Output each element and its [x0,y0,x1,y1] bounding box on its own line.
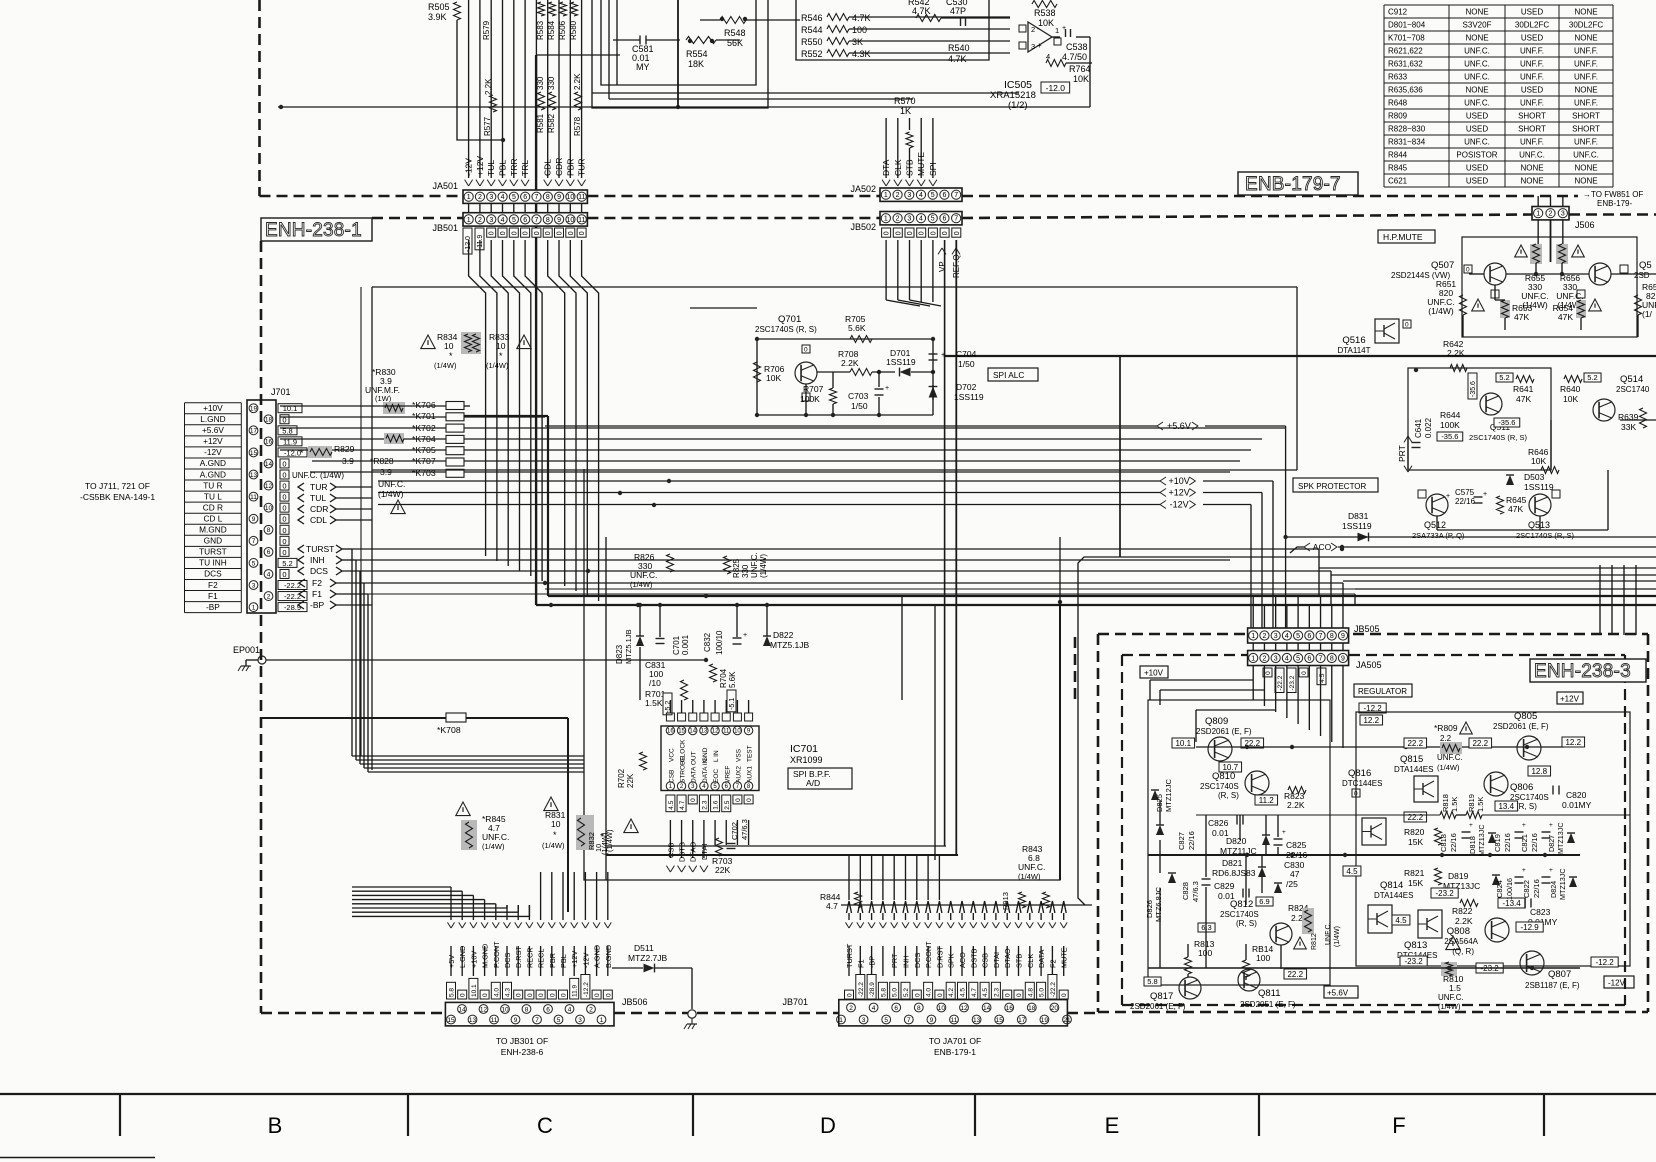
svg-text:D801~804: D801~804 [1388,20,1426,29]
ground D511 [684,1018,697,1029]
svg-text:10: 10 [567,194,575,201]
svg-text:SPK: SPK [947,953,956,968]
svg-text:0: 0 [1405,322,1409,329]
svg-text:4.3: 4.3 [505,988,512,997]
svg-text:3: 3 [1031,42,1035,51]
connector JA505 [1248,651,1382,671]
svg-text:A.GND: A.GND [200,469,226,479]
resistor R830 3.9 UNF.M.F. (1W) [365,367,405,414]
relay K702 [280,423,1285,433]
svg-text:0: 0 [919,231,926,235]
svg-text:+: + [1522,867,1526,874]
svg-text:TO JA701 OF: TO JA701 OF [929,1036,981,1046]
net bracket DCS [298,566,360,576]
resistor R819 1.5K [1466,794,1485,818]
svg-text:13.4: 13.4 [1498,802,1514,811]
svg-text:+: + [1446,493,1450,500]
boxed 22.2 a [1241,738,1264,748]
svg-text:+: + [1549,822,1553,829]
svg-text:100K: 100K [800,394,820,404]
svg-text:R546: R546 [801,13,823,23]
label SPI B.P.F. A/D [788,768,852,789]
svg-text:SHORT: SHORT [1572,124,1600,133]
svg-text:17: 17 [250,428,258,435]
bus thick pair [464,416,1656,607]
svg-text:7: 7 [954,192,958,199]
svg-text:(R, S): (R, S) [1516,802,1537,811]
svg-text:0: 0 [568,231,575,235]
svg-text:2: 2 [1031,25,1035,34]
svg-text:R579: R579 [482,20,491,40]
svg-text:F1: F1 [208,591,218,601]
wire JB701 feed rails [606,846,1092,905]
resistor R820 15K [1404,827,1442,847]
svg-text:2SC1740S: 2SC1740S [1200,782,1239,791]
boxed 12.2 b [1562,737,1585,747]
ruler letter E [1105,1113,1120,1138]
svg-text:SPI ALC: SPI ALC [993,370,1024,380]
ground EP001 [238,660,251,671]
resistor R845 4.7 UNF.C.(1/4W) [456,802,510,851]
wire JA501-JB501 links [469,203,582,212]
svg-text:0: 0 [1354,791,1358,798]
svg-text:TRR: TRR [509,159,519,176]
net label TRL [520,160,530,186]
svg-text:4: 4 [919,216,923,223]
svg-text:0: 0 [511,231,518,235]
wire vertical x935 [934,604,936,860]
resistor R580 / R578 2.2K [569,2,582,136]
svg-text:TU INH: TU INH [199,558,227,568]
svg-text:47K: 47K [1516,394,1531,404]
svg-text:UNF.F.: UNF.F. [1520,98,1544,107]
diode D701 1SS119 [886,348,933,376]
svg-text:47K: 47K [1508,504,1523,514]
resistor R823 2.2K [1284,787,1306,811]
svg-text:(1/4W): (1/4W) [486,361,509,370]
svg-text:POSISTOR: POSISTOR [1456,150,1497,159]
capacitor C828 47/6.3 [1181,879,1211,902]
svg-text:+5V: +5V [447,955,456,968]
label JB701 [782,997,808,1007]
svg-text:SHORT: SHORT [1518,124,1546,133]
svg-text:4.7: 4.7 [679,800,686,809]
connector JB701 [837,1000,1072,1026]
svg-text:9: 9 [252,516,256,523]
capacitor C822 22/16 [1522,867,1553,898]
svg-text:UNF.C.: UNF.C. [482,832,509,842]
svg-text:100/16: 100/16 [1505,878,1514,900]
svg-text:(1/4W): (1/4W) [542,841,565,850]
svg-text:2.2: 2.2 [1440,734,1452,743]
svg-text:22/16: 22/16 [1532,879,1541,898]
svg-text:R844: R844 [1388,150,1408,159]
resistor R824 2.2K [1288,903,1314,934]
svg-text:2.2K: 2.2K [1455,916,1473,926]
resistor R913 [1001,892,1050,910]
svg-text:NONE: NONE [1520,163,1543,172]
resistor R654 47K [1553,299,1602,322]
svg-text:(1/4W): (1/4W) [1018,872,1041,881]
svg-text:-28.9: -28.9 [869,982,876,997]
svg-text:(1/4W): (1/4W) [1334,926,1341,947]
svg-text:Q808: Q808 [1447,926,1470,937]
wire bus to JA502 [886,118,933,178]
resistor R583 330 R581 [536,2,545,133]
svg-text:33K: 33K [1621,422,1636,432]
svg-text:MTZ5.1JB: MTZ5.1JB [770,640,810,650]
svg-text:2SA733A (P, Q): 2SA733A (P, Q) [1412,531,1465,540]
svg-text:B: B [268,1113,283,1138]
svg-text:8: 8 [1330,656,1334,663]
svg-text:-12V: -12V [1608,979,1626,988]
svg-text:C828: C828 [1181,882,1190,900]
wire vertical x902 [901,595,903,700]
transistor Q817 2SD2061 (E, F) [1130,977,1201,1011]
svg-text:C912: C912 [1388,7,1408,16]
connector JB501 [432,213,587,233]
transistor Q516 DTA114T [1337,319,1411,355]
svg-text:6: 6 [894,1005,898,1012]
connector J701 [247,387,291,613]
diode D831 1SS119 [1342,511,1372,541]
svg-text:R540: R540 [948,43,970,53]
svg-text:0: 0 [942,231,949,235]
svg-text:C621: C621 [1388,176,1408,185]
svg-text:STB: STB [905,159,915,176]
svg-text:1: 1 [839,1017,843,1024]
svg-text:Q507: Q507 [1431,260,1454,271]
wire bus JB501 down [469,240,599,385]
svg-text:10K: 10K [1038,18,1054,28]
svg-text:SHORT: SHORT [1572,111,1600,120]
svg-text:0: 0 [545,231,552,235]
svg-text:Q5: Q5 [1639,260,1652,271]
svg-text:100: 100 [852,25,867,35]
svg-text:MTZ11JC: MTZ11JC [1220,846,1257,856]
svg-text:STB: STB [1015,954,1024,968]
svg-text:14: 14 [689,729,696,735]
svg-text:L.GND: L.GND [200,414,225,424]
svg-text:TO JB301 OF: TO JB301 OF [496,1036,548,1046]
svg-text:11.2: 11.2 [1259,796,1275,805]
svg-text:UNF.C.: UNF.C. [1464,98,1490,107]
svg-text:47/6.3: 47/6.3 [740,819,749,840]
svg-text:22.2: 22.2 [1472,739,1488,748]
resistor R708 2.2K [817,349,895,376]
svg-text:11: 11 [578,217,585,224]
svg-text:VSS: VSS [735,748,742,762]
svg-text:(1/4W): (1/4W) [482,842,505,851]
svg-text:5: 5 [557,1017,561,1024]
net label TUL [486,160,496,186]
board outline dashed ENH-238-1 left [260,241,263,1013]
svg-text:4.5: 4.5 [982,988,989,997]
label ACO [1290,542,1656,553]
svg-text:6: 6 [523,217,527,224]
svg-text:M.GND: M.GND [481,944,490,968]
svg-text:5.8: 5.8 [880,988,887,997]
svg-text:30DL2FC: 30DL2FC [1569,20,1603,29]
svg-text:1: 1 [467,194,471,201]
wire bus JB502 down [945,240,957,855]
svg-text:D511: D511 [634,943,654,953]
svg-text:7: 7 [535,194,539,201]
svg-text:0: 0 [282,537,286,546]
resistor R584 330 R582 [547,2,556,133]
svg-text:UNF.C.: UNF.C. [1018,862,1045,872]
IC701 pin values [666,795,753,812]
svg-text:(1/4W): (1/4W) [605,829,614,852]
wire JB701 feed fan [847,856,1067,920]
boxed -5.1 vertical [727,690,736,712]
svg-text:ACO: ACO [1313,542,1332,552]
svg-text:JB701: JB701 [782,997,808,1007]
svg-text:R584: R584 [547,20,556,40]
boxed -12.2 b [1591,957,1618,967]
svg-text:-23.2: -23.2 [1404,957,1423,966]
svg-text:R582: R582 [547,113,556,133]
svg-text:1.5: 1.5 [1449,983,1461,993]
svg-text:PRT: PRT [1397,445,1407,462]
node EP001 [233,645,266,666]
svg-text:22/16: 22/16 [1455,497,1476,506]
svg-text:SPK PROTECTOR: SPK PROTECTOR [1298,482,1367,491]
label +5.6V box [1324,986,1358,998]
svg-text:NONE: NONE [1574,7,1597,16]
svg-text:R578: R578 [573,116,582,136]
svg-text:8: 8 [546,217,550,224]
module label ENH-238-3 [1530,659,1646,682]
svg-text:USED: USED [1521,85,1543,94]
svg-text:TURST: TURST [306,544,334,554]
svg-text:2: 2 [267,593,271,600]
svg-text:-5.1: -5.1 [729,698,736,710]
boxed 5.2 right [1584,373,1601,382]
svg-text:5.6K: 5.6K [728,671,737,688]
svg-text:0: 0 [557,231,564,235]
svg-text:100: 100 [1198,948,1212,958]
svg-text:DTAO: DTAO [689,842,698,862]
svg-text:NONE: NONE [1465,85,1488,94]
svg-text:0: 0 [460,993,467,997]
svg-text:2.5: 2.5 [724,800,731,809]
wire mute internals [1463,263,1656,337]
wire feedback lines [278,37,1092,109]
svg-text:4: 4 [1285,633,1289,640]
svg-text:12.2: 12.2 [1363,716,1379,725]
svg-text:+5.6V: +5.6V [1327,989,1349,998]
svg-text:8: 8 [267,527,271,534]
svg-text:+12V: +12V [570,951,579,968]
svg-text:R812: R812 [1311,933,1318,950]
svg-text:15K: 15K [1408,878,1423,888]
svg-text:PBL: PBL [498,160,508,176]
resistor R826 330 UNF.C.(1/4W) [630,552,674,589]
resistor R652 820 [1635,282,1656,319]
boxed 6.3 [1198,923,1215,932]
bus lower-left horizontals [352,756,584,772]
svg-text:0: 0 [690,798,697,802]
svg-text:-22.2: -22.2 [1277,675,1284,690]
svg-text:(1/4W): (1/4W) [1428,306,1454,316]
svg-text:1: 1 [600,1017,604,1024]
capacitor C821 22/16 [1520,822,1553,852]
svg-text:F2: F2 [1048,959,1057,968]
svg-text:(Q, R): (Q, R) [1452,947,1474,956]
label REGULATOR [1354,684,1412,697]
svg-text:9: 9 [557,194,561,201]
svg-text:1.6: 1.6 [713,800,720,809]
svg-text:UNF.C.: UNF.C. [1519,150,1545,159]
wire bus JB506 columns [451,905,608,976]
svg-text:J506: J506 [1575,220,1595,230]
boxed 10.1 [1172,738,1195,748]
svg-text:100/10: 100/10 [715,630,724,655]
svg-text:4: 4 [1285,656,1289,663]
svg-text:+: + [1037,41,1042,50]
svg-text:10: 10 [734,729,741,735]
svg-text:3K: 3K [852,37,863,47]
svg-text:D503: D503 [1524,472,1545,482]
svg-text:R819: R819 [1467,794,1476,812]
net labels JB701 columns [845,922,1069,968]
svg-text:2SB1187 (E, F): 2SB1187 (E, F) [1525,981,1580,990]
svg-text:TU R: TU R [203,480,222,490]
svg-text:ENH-238-1: ENH-238-1 [265,220,362,241]
wire R505 branch [457,20,503,140]
net label VP REF.Q [938,248,961,278]
capacitor C530 47P [946,0,968,26]
svg-text:5: 5 [252,560,256,567]
svg-text:7: 7 [1319,633,1323,640]
svg-text:R702: R702 [617,768,626,788]
svg-text:A.GND: A.GND [593,945,602,968]
resistor R831 10 [542,797,603,852]
svg-text:3: 3 [862,1017,866,1024]
wire regulator rail 815 [1196,814,1630,816]
wire regulator rail 968 [1148,966,1580,970]
svg-text:6: 6 [1307,633,1311,640]
ruler letter B [268,1113,283,1138]
svg-text:+: + [743,632,747,639]
svg-text:1.5K: 1.5K [1476,797,1485,812]
svg-text:+12V: +12V [1169,488,1190,498]
svg-text:TUL: TUL [310,493,326,503]
ruler line [0,1093,1656,1095]
resistor R642 2.2K [1443,339,1465,358]
svg-text:*: * [449,351,453,361]
capacitor C832 100/10 [703,603,747,655]
svg-text:ENB-179-1: ENB-179-1 [934,1047,976,1057]
resistor R818 1.5K [1440,794,1459,818]
wire IC701 top pins [670,700,748,713]
svg-text:0: 0 [561,993,568,997]
svg-text:L.GND: L.GND [458,946,467,968]
note TO FW851 OF ENB-179- [1583,190,1643,208]
wire vertical x606 [605,537,607,880]
svg-text:7: 7 [1319,656,1323,663]
resistor R809 2.2 UNF.C.(1/4W) [1434,722,1472,772]
svg-text:PBR: PBR [548,953,557,968]
svg-text:6: 6 [267,549,271,556]
resistor R706 10K [754,362,785,383]
svg-text:NONE: NONE [1574,85,1597,94]
relay K703 [310,467,1230,478]
svg-text:DTA144ES: DTA144ES [1394,765,1433,774]
resistor R814 100 [1243,944,1274,977]
wire JB506 feeds [352,872,608,916]
note UNF.C. (1/4W) K row [378,479,405,514]
wire JA505 branch left [1150,680,1276,742]
wire thick vertical x1060 [1058,600,1062,880]
svg-text:5: 5 [512,217,516,224]
net label TRR [509,159,519,186]
note TO JB301 OF ENH-238-6 [496,1036,548,1057]
wire bus y593 [545,588,1656,590]
zener D824 MTZ13JC [1549,868,1577,900]
wire vertical x1120 [1119,356,1121,557]
resistor R542 4.7K [908,0,1010,22]
svg-text:*: * [499,351,503,361]
svg-text:3: 3 [1274,633,1278,640]
svg-text:5.0: 5.0 [892,988,899,997]
resistor R813 100 [1185,939,1215,974]
capacitor C823 0.01MY [1525,899,1558,928]
svg-text:C823: C823 [1530,907,1551,917]
svg-text:R641: R641 [1513,384,1534,394]
svg-text:1: 1 [1536,211,1540,218]
svg-text:MTZ2.7JB: MTZ2.7JB [628,953,668,963]
svg-text:7: 7 [535,1017,539,1024]
svg-text:0: 0 [282,482,286,491]
resistor R707 100K [800,372,837,417]
svg-text:STROBE: STROBE [680,756,687,783]
svg-text:5.0: 5.0 [1039,988,1046,997]
net label CSB DSTB DTAO DTAI [666,842,709,872]
svg-text:SHORT: SHORT [1518,111,1546,120]
svg-text:DATA OUT: DATA OUT [691,751,698,783]
svg-text:-12V: -12V [581,952,590,968]
net bracket TUL [298,493,372,503]
svg-text:DTAO: DTAO [1003,948,1012,968]
svg-text:Q815: Q815 [1400,754,1423,765]
resistor R548 56K [700,17,800,49]
board outline dashed ENB-179 left vertical [258,0,261,196]
svg-text:R544: R544 [801,25,823,35]
label -12V box [1604,976,1634,988]
bus -12V [378,500,1251,628]
svg-text:-22.2: -22.2 [284,592,301,601]
transistor Q812 2SC1740S (R, S) [1220,899,1292,945]
net bracket TUR [298,482,372,492]
svg-text:0: 0 [527,993,534,997]
svg-text:12: 12 [712,729,719,735]
svg-text:INH: INH [310,555,325,565]
op-amp IC505 [1019,22,1061,61]
svg-text:R554: R554 [686,49,708,59]
svg-text:CDR: CDR [554,158,564,176]
svg-text:30DL2FC: 30DL2FC [1515,20,1549,29]
svg-text:2SC1740: 2SC1740 [1616,385,1650,394]
svg-text:6: 6 [942,192,946,199]
svg-text:1.5K: 1.5K [1450,797,1459,812]
svg-text:R818: R818 [1441,794,1450,812]
svg-text:CSB: CSB [668,770,675,783]
wire bus JA501 top [469,0,582,178]
svg-text:E: E [1105,1113,1120,1138]
svg-text:Q514: Q514 [1620,374,1643,385]
